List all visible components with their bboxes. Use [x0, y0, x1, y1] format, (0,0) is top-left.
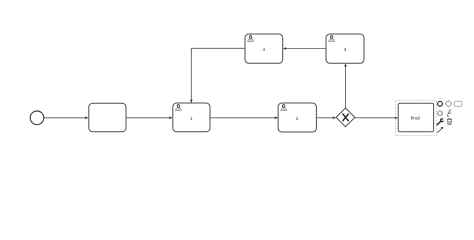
svg-text:1: 1 — [190, 116, 193, 121]
svg-text:2: 2 — [296, 116, 299, 121]
svg-text:4: 4 — [263, 47, 266, 52]
svg-text:final: final — [411, 115, 420, 121]
svg-text:3: 3 — [344, 47, 347, 52]
